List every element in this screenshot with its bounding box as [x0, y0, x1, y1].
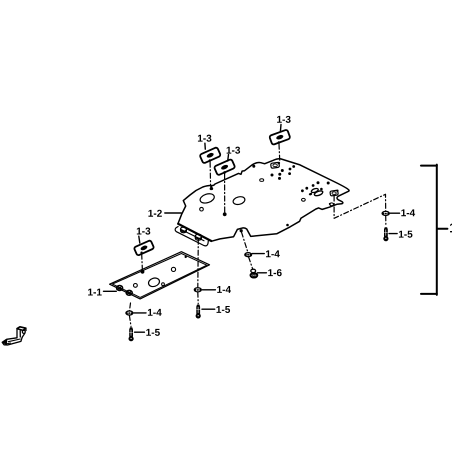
plate 1-1 small dot	[185, 256, 187, 258]
plate 1-2 small slot left	[260, 179, 264, 182]
dash-dot line clip1 to plate	[209, 162, 212, 186]
clip nut 1-3 #2	[214, 159, 235, 176]
flange stud 1	[181, 226, 187, 233]
tab hole dot on plate	[240, 229, 243, 232]
weld nut B on plate	[330, 190, 339, 197]
flange under plate 1-2	[175, 227, 208, 246]
label 1-4 left	[134, 309, 162, 316]
dash-dot line clip3 to nut A	[278, 144, 281, 162]
clip nut 1-3 #3	[269, 129, 290, 145]
label 1-5 left	[135, 329, 160, 336]
plate 1-1 hole 2	[134, 284, 138, 288]
plate 1-2 small slot right	[330, 203, 334, 206]
washer 1-4 center	[245, 253, 252, 257]
stud dot on plate (for clip 1-3 #1)	[210, 185, 214, 190]
washer 1-4 right	[382, 211, 390, 215]
plate 1-1 inner line	[113, 254, 207, 298]
label 1-1	[88, 289, 116, 296]
clip nut 1-3 #1	[199, 147, 220, 164]
flange stud 2	[195, 234, 201, 240]
plate 1-2 small slot mid	[302, 198, 306, 201]
group bracket right	[421, 165, 447, 295]
bolt 1-5 right	[383, 228, 388, 242]
plate 1-2 ellipse hole right	[232, 195, 246, 205]
washer 1-4 mid	[194, 288, 201, 292]
stud dot on plate (for clip 1-3 #2)	[223, 212, 227, 216]
dash-dot line clip4 to plate 1-1	[141, 254, 144, 270]
dash-dot line plate 1-1 to washer/bolt left	[129, 303, 131, 326]
label 1-4 center	[252, 250, 280, 257]
plate 1-2 outline	[178, 159, 349, 241]
dash-dot line clip2 to plate	[224, 174, 226, 213]
label 1-3 #2	[227, 147, 240, 161]
plate 1-1 outer	[110, 252, 210, 299]
label 1-3 #1	[198, 135, 211, 150]
dash-dot line tab to washer center to nut 1-6	[242, 232, 253, 269]
dash-dot line flange stud2 to washer/bolt mid	[197, 239, 200, 303]
label 1-4 mid	[202, 286, 231, 293]
label 1 (group)	[450, 223, 452, 232]
plate 1-1 hole 1	[171, 267, 175, 271]
dash-dot line nut B to washer/bolt right	[334, 194, 386, 226]
plate 1-1 stud nut 2	[126, 290, 132, 295]
plate 1-2 ellipse hole left	[199, 192, 216, 205]
plate 1-1 big ellipse	[147, 277, 160, 288]
plate 1-1 stud nut 1	[117, 286, 123, 291]
nut 1-6	[251, 269, 258, 277]
plate 1-2 bottom-left edge emphasis	[178, 224, 211, 241]
frame bracket left	[2, 327, 26, 345]
clip nut 1-3 #4	[134, 240, 154, 256]
label 1-3 #4	[137, 228, 150, 243]
label 1-3 #3	[277, 116, 290, 132]
bolt 1-5 left	[129, 328, 134, 342]
label 1-5 mid	[202, 306, 230, 313]
label 1-5 right	[389, 231, 412, 238]
washer 1-4 left	[126, 311, 133, 315]
label 1-2	[148, 210, 181, 217]
label 1-6	[258, 269, 282, 276]
clip on plate	[311, 188, 319, 194]
plate 1-1 stud dot (for clip 1-3 #4)	[141, 270, 145, 274]
plate 1-1 hole 3	[162, 283, 165, 286]
label 1-4 right	[390, 209, 415, 216]
bolt 1-5 mid	[196, 305, 201, 319]
plate 1-2 bolt hole dots	[252, 165, 329, 227]
plate 1-2 small hole	[200, 207, 204, 211]
weld nut A on plate	[271, 162, 281, 169]
